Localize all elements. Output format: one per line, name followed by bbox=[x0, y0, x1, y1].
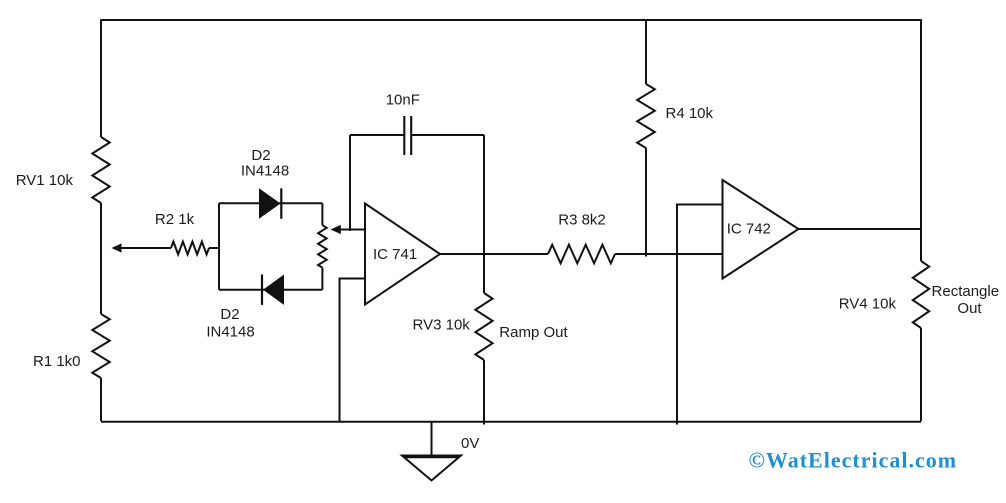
diode D2 bottom (anode right) bbox=[263, 275, 284, 305]
svg-text:D2: D2 bbox=[220, 306, 239, 323]
wire R3 to IC742 inverting input bbox=[615, 253, 723, 255]
wire IC742 output bbox=[799, 228, 922, 230]
wire R2 to diode loop bbox=[209, 247, 219, 249]
svg-text:R3 8k2: R3 8k2 bbox=[558, 212, 606, 229]
wire bottom rail 0V bbox=[101, 421, 921, 423]
wire right rail lower segment bbox=[920, 328, 922, 421]
potentiometer RV3 bbox=[475, 293, 492, 360]
resistor R2 bbox=[171, 242, 209, 255]
svg-text:IN4148: IN4148 bbox=[206, 324, 254, 341]
svg-text:D2: D2 bbox=[251, 147, 270, 164]
wire left rail middle segment bbox=[100, 203, 102, 314]
ground symbol bbox=[402, 456, 461, 481]
resistor R3 bbox=[548, 245, 615, 264]
wire left rail lower segment bbox=[100, 378, 102, 421]
svg-text:©WatElectrical.com: ©WatElectrical.com bbox=[749, 448, 958, 473]
resistor R1 bbox=[92, 314, 109, 378]
wire RV3 to bottom rail bbox=[483, 360, 485, 425]
wire R4 branch from top rail bbox=[645, 20, 647, 84]
capacitor C1 10nF plates bbox=[404, 116, 411, 155]
svg-text:IN4148: IN4148 bbox=[241, 163, 289, 180]
diode D2 top cathode bar bbox=[280, 188, 282, 219]
op-amp U1 IC 741 bbox=[365, 204, 440, 305]
wire capacitor loop right bbox=[411, 134, 484, 136]
diode D2 top (anode left) bbox=[259, 188, 281, 219]
wiper arrowhead at RV2 bbox=[331, 225, 341, 234]
svg-text:10nF: 10nF bbox=[386, 92, 420, 109]
wire left rail upper segment bbox=[100, 19, 102, 137]
wire diode loop right vertical upper stub bbox=[321, 203, 323, 225]
wire IC741 inverting input bbox=[341, 229, 366, 231]
wire top rail bbox=[101, 19, 921, 21]
ground stem 0V bbox=[431, 421, 433, 456]
potentiometer RV4 bbox=[913, 261, 929, 328]
svg-text:IC 741: IC 741 bbox=[373, 246, 417, 263]
svg-text:Rectangle: Rectangle bbox=[932, 283, 1000, 300]
wire diode loop bottom bbox=[219, 289, 322, 291]
wire IC741 non-inverting input bbox=[340, 279, 366, 422]
svg-text:R2 1k: R2 1k bbox=[155, 211, 195, 228]
svg-text:RV4 10k: RV4 10k bbox=[839, 296, 897, 313]
wire IC742 non-inverting input bbox=[677, 205, 723, 425]
wire diode loop left vertical bbox=[218, 203, 220, 289]
wire IC741 output bbox=[440, 253, 548, 255]
svg-text:IC 742: IC 742 bbox=[727, 221, 771, 238]
svg-text:Ramp Out: Ramp Out bbox=[499, 324, 568, 341]
wire feedback junction vertical upper bbox=[483, 135, 485, 293]
svg-text:Out: Out bbox=[957, 300, 982, 317]
potentiometer RV2 bbox=[318, 225, 327, 267]
wire diode loop top bbox=[219, 202, 322, 204]
svg-text:R4 10k: R4 10k bbox=[666, 105, 714, 122]
op-amp U2 IC 742 bbox=[723, 180, 799, 279]
potentiometer RV1 bbox=[92, 137, 109, 203]
svg-text:R1 1k0: R1 1k0 bbox=[33, 353, 81, 370]
wiper arrowhead at RV1 bbox=[112, 243, 122, 252]
svg-text:RV1 10k: RV1 10k bbox=[16, 172, 74, 189]
wire right rail upper segment bbox=[920, 19, 922, 261]
wire R4 to node junction bbox=[645, 148, 647, 257]
wire capacitor loop left bbox=[350, 134, 404, 136]
wire capacitor feedback vertical bbox=[349, 135, 351, 231]
wire RV1 wiper lead bbox=[121, 247, 172, 249]
wire diode loop right vertical lower stub bbox=[321, 268, 323, 290]
resistor R4 bbox=[637, 84, 655, 148]
svg-text:0V: 0V bbox=[461, 435, 479, 452]
diode D2 bottom cathode bar bbox=[261, 275, 263, 305]
svg-text:RV3 10k: RV3 10k bbox=[413, 317, 471, 334]
